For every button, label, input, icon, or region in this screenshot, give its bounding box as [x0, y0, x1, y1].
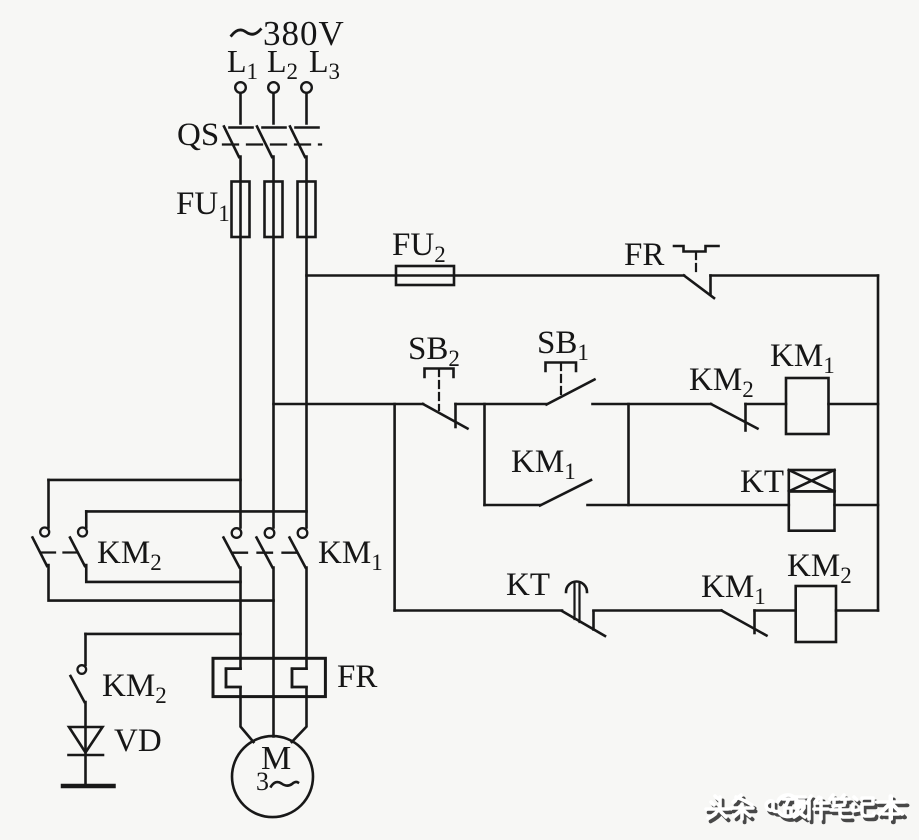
svg-text:VD: VD	[114, 723, 162, 759]
svg-text:3: 3	[256, 767, 269, 796]
svg-text:FR: FR	[337, 659, 377, 695]
svg-text:KT: KT	[740, 464, 784, 500]
svg-text:KT: KT	[506, 567, 550, 603]
svg-text:FR: FR	[624, 237, 664, 273]
svg-text:QS: QS	[177, 117, 219, 153]
